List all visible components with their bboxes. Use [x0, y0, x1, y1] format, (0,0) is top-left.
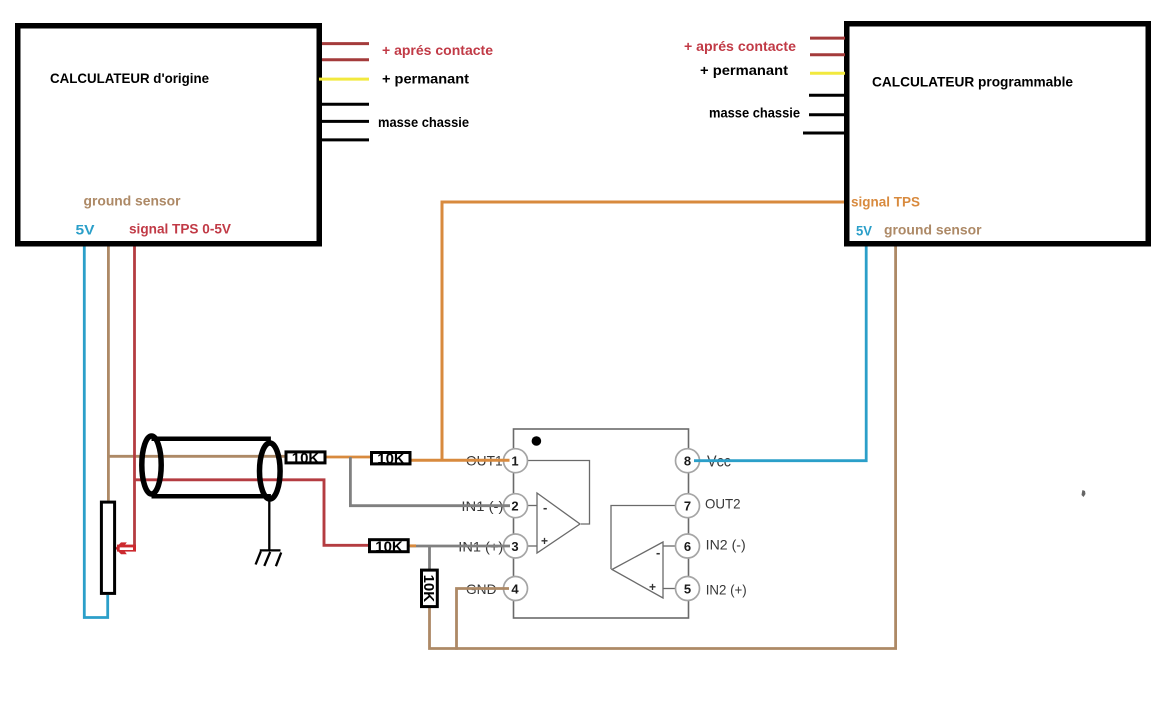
svg-text:masse chassie: masse chassie	[709, 106, 800, 121]
svg-text:4: 4	[511, 582, 519, 597]
svg-text:8: 8	[684, 454, 691, 469]
svg-text:+ permanant: + permanant	[700, 63, 789, 78]
svg-text:7: 7	[684, 499, 691, 514]
svg-text:10K: 10K	[375, 538, 403, 555]
svg-text:-: -	[543, 500, 547, 515]
svg-text:5V: 5V	[76, 223, 95, 238]
svg-text:IN2 (-): IN2 (-)	[706, 537, 746, 553]
svg-text:3: 3	[511, 539, 518, 554]
svg-text:ground sensor: ground sensor	[84, 194, 182, 209]
svg-text:OUT2: OUT2	[705, 496, 741, 512]
svg-text:10K: 10K	[420, 575, 437, 603]
svg-text:+: +	[541, 534, 548, 548]
svg-text:signal TPS: signal TPS	[851, 195, 920, 210]
svg-text:+: +	[649, 580, 656, 594]
svg-text:ground sensor: ground sensor	[884, 223, 982, 238]
svg-text:10K: 10K	[377, 450, 405, 467]
svg-text:CALCULATEUR programmable: CALCULATEUR programmable	[872, 74, 1073, 90]
svg-text:2: 2	[511, 499, 518, 514]
svg-text:5V: 5V	[856, 224, 872, 239]
svg-text:signal TPS 0-5V: signal TPS 0-5V	[129, 222, 231, 237]
svg-text:+ aprés contacte: + aprés contacte	[382, 43, 493, 58]
svg-text:1: 1	[511, 454, 518, 469]
svg-text:+ aprés contacte: + aprés contacte	[684, 39, 797, 54]
svg-text:+ permanant: + permanant	[382, 72, 470, 87]
svg-text:-: -	[656, 545, 660, 560]
svg-text:masse chassie: masse chassie	[378, 115, 469, 130]
svg-text:5: 5	[684, 582, 691, 597]
svg-text:IN2 (+): IN2 (+)	[706, 582, 747, 598]
svg-text:CALCULATEUR d'origine: CALCULATEUR d'origine	[50, 70, 209, 86]
svg-text:10K: 10K	[292, 450, 320, 467]
svg-text:6: 6	[684, 539, 691, 554]
